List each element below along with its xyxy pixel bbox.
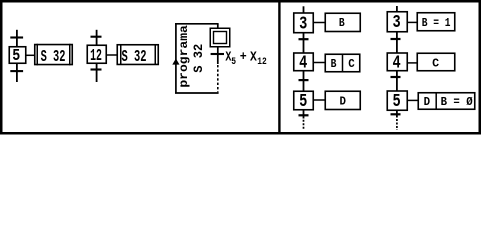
action box S 32 (stored action, double ends) <box>35 45 73 65</box>
wire <box>396 110 398 117</box>
step 4 <box>387 53 407 71</box>
step 3 <box>387 12 407 32</box>
svg-text:S 32: S 32 <box>191 44 206 73</box>
svg-text:+: + <box>240 50 247 64</box>
wire to action B <box>313 22 325 24</box>
stub below macro step <box>217 47 219 64</box>
step 5 <box>387 91 407 110</box>
wire <box>303 33 305 53</box>
svg-text:D: D <box>340 95 347 109</box>
dotted wire <box>217 65 219 92</box>
svg-text:B: B <box>331 57 337 71</box>
transition tick <box>391 113 401 115</box>
transition tick T3 <box>91 36 102 38</box>
svg-text:B = Ø: B = Ø <box>441 95 474 109</box>
macro step double square <box>210 28 230 47</box>
panel divider <box>278 3 280 133</box>
wire <box>16 30 18 82</box>
program frame bottom edge <box>175 92 219 94</box>
transition tick <box>299 114 309 116</box>
svg-text:12: 12 <box>90 47 102 66</box>
wire <box>396 32 398 53</box>
transition tick T4 <box>91 68 102 70</box>
arrowhead up <box>172 59 179 65</box>
wire to action B=1 <box>407 21 417 23</box>
wire <box>303 71 305 91</box>
wire to action D|B=0 <box>407 99 418 101</box>
transition tick T2 <box>10 70 23 72</box>
stub above macro step <box>217 24 219 28</box>
svg-text:C: C <box>432 57 440 71</box>
action box S 32 (stored action, double ends) <box>117 45 158 65</box>
transition tick <box>299 79 309 81</box>
svg-text:programa: programa <box>178 25 191 88</box>
action box B | C <box>325 54 360 72</box>
wire <box>396 6 398 12</box>
svg-text:X: X <box>250 49 257 65</box>
transition tick T1 <box>10 36 23 38</box>
dotted continuation <box>396 119 398 130</box>
svg-text:B: B <box>339 16 345 30</box>
wire <box>303 6 305 13</box>
wire <box>96 30 98 82</box>
action box B = 1 <box>417 13 455 31</box>
svg-text:B = 1: B = 1 <box>422 16 451 30</box>
svg-text:5: 5 <box>12 46 20 65</box>
wire to action D <box>313 99 325 101</box>
outer frame <box>1 1 480 133</box>
svg-text:D: D <box>424 95 431 109</box>
transition tick <box>391 38 401 40</box>
transition tick <box>299 38 309 40</box>
svg-text:3: 3 <box>393 13 401 33</box>
transition tick <box>391 76 401 78</box>
svg-text:S 32: S 32 <box>122 48 147 67</box>
step 5 <box>294 91 314 110</box>
svg-text:4: 4 <box>299 53 307 73</box>
svg-text:4: 4 <box>393 53 401 73</box>
svg-text:12: 12 <box>257 56 267 68</box>
return wire with arrow <box>175 24 177 93</box>
action box B <box>325 13 360 31</box>
step 12 <box>87 45 106 63</box>
dotted continuation <box>303 120 305 130</box>
action box D <box>325 91 360 109</box>
action box C <box>417 53 455 71</box>
svg-text:5: 5 <box>231 56 236 68</box>
step 4 <box>294 53 314 71</box>
svg-text:3: 3 <box>299 15 307 35</box>
svg-text:5: 5 <box>299 92 307 112</box>
svg-text:C: C <box>348 57 355 71</box>
wire to action <box>27 54 35 56</box>
program frame top edge <box>175 23 219 25</box>
action box D | B = 0 <box>418 93 475 110</box>
wire to action <box>107 54 117 56</box>
wire to action B|C <box>313 62 325 64</box>
wire <box>396 71 398 91</box>
wire <box>303 110 305 119</box>
step 3 <box>294 13 314 33</box>
transition tick T5 <box>211 53 224 55</box>
wire to action C <box>407 62 417 64</box>
svg-text:S 32: S 32 <box>41 48 66 67</box>
step 5 <box>9 47 26 64</box>
svg-text:5: 5 <box>393 92 401 112</box>
